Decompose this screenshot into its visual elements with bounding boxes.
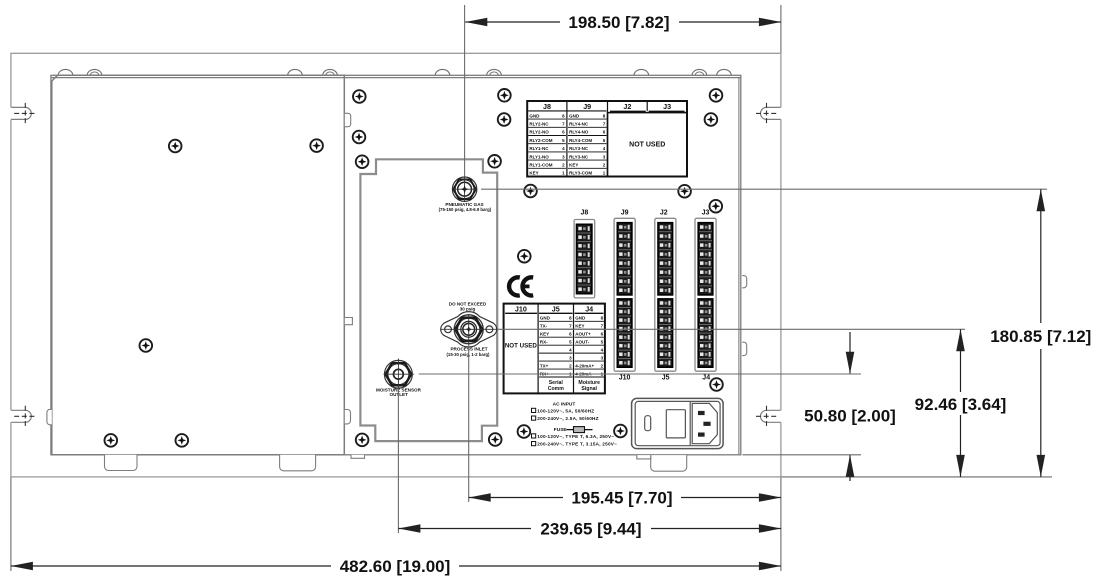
svg-text:FUSE: FUSE: [554, 427, 568, 433]
svg-text:50.80 [2.00]: 50.80 [2.00]: [804, 406, 896, 425]
screw 7: [353, 131, 366, 144]
svg-text:J9: J9: [583, 102, 591, 111]
svg-text:AC INPUT: AC INPUT: [553, 401, 576, 407]
mounting slot L416: [11, 410, 31, 422]
svg-text:482.60 [19.00]: 482.60 [19.00]: [340, 557, 451, 576]
svg-text:RLY2-COM: RLY2-COM: [529, 138, 552, 143]
extension line moisture horizontal: [419, 373, 861, 375]
svg-text:AOUT-: AOUT-: [575, 340, 590, 345]
svg-text:RLY1-COM: RLY1-COM: [529, 162, 552, 167]
svg-text:TX-: TX-: [540, 324, 548, 329]
svg-text:200-240V~, 2.5A, 50/60HZ: 200-240V~, 2.5A, 50/60HZ: [537, 416, 598, 421]
svg-text:Comm: Comm: [548, 386, 565, 392]
svg-text:RX-: RX-: [540, 340, 548, 345]
screw 15: [705, 113, 718, 126]
svg-text:J8: J8: [581, 209, 589, 216]
foot tab 3: [651, 455, 687, 471]
svg-text:J2: J2: [660, 209, 668, 216]
process inlet fitting: [441, 312, 497, 347]
screw 8: [356, 155, 369, 168]
svg-text:J4: J4: [702, 375, 710, 382]
chassis right seam line: [738, 78, 740, 455]
svg-text:198.50 [7.82]: 198.50 [7.82]: [568, 13, 669, 32]
foot tab 1: [105, 455, 138, 471]
svg-text:GND: GND: [575, 316, 586, 321]
svg-text:J5: J5: [552, 304, 560, 313]
screw 21: [614, 425, 627, 438]
chassis rear outline: [51, 75, 741, 455]
screw 9: [356, 434, 369, 447]
extension line pneumatic vertical: [464, 5, 466, 177]
svg-text:195.45 [7.70]: 195.45 [7.70]: [571, 488, 672, 507]
small bottom bump right: [637, 455, 651, 459]
svg-text:J2: J2: [623, 102, 631, 111]
svg-text:RLY3-NC: RLY3-NC: [569, 154, 589, 159]
svg-text:J10: J10: [515, 304, 527, 313]
dimension 180.85 right: [1040, 189, 1042, 323]
terminal strip J8: [574, 220, 595, 298]
dimension 195.45 bottom: [469, 497, 563, 499]
svg-text:4-20mA+: 4-20mA+: [575, 363, 594, 368]
IEC C14 inlet: [689, 401, 691, 445]
screw 12: [498, 89, 511, 102]
svg-text:RLY1-NC: RLY1-NC: [529, 146, 549, 151]
extension line panel left bottom: [10, 478, 12, 572]
door tab A: [345, 113, 351, 126]
extension line panel right top: [780, 5, 782, 53]
screw 19: [518, 250, 531, 263]
CE mark: [509, 277, 533, 295]
fuse drawer: [666, 410, 685, 438]
svg-text:KEY: KEY: [569, 162, 578, 167]
power switch slot: [645, 416, 651, 431]
lower table rows: [539, 320, 572, 322]
svg-text:RLY2-NC: RLY2-NC: [529, 121, 549, 126]
door tab B: [345, 318, 353, 325]
chassis top seam line: [51, 77, 741, 79]
top edge dome screws: [58, 69, 73, 75]
screw 18: [710, 200, 723, 213]
left access door: [52, 75, 345, 455]
svg-text:TX+: TX+: [540, 363, 549, 368]
svg-text:RLY3-COM: RLY3-COM: [569, 171, 592, 176]
screw 1: [169, 140, 182, 153]
upper table rows: [528, 118, 566, 120]
mounting slot L113: [11, 107, 31, 119]
screw 20: [518, 425, 531, 438]
svg-text:J9: J9: [621, 209, 629, 216]
terminal strip column J3/J4: [695, 218, 716, 371]
extension line pneumatic horizontal: [481, 188, 1047, 190]
svg-text:30 psig: 30 psig: [460, 307, 476, 312]
screw 17: [678, 185, 691, 198]
rack panel outline: [11, 53, 781, 477]
screw 10: [488, 155, 501, 168]
foot tab 2: [280, 455, 316, 471]
door tab C: [345, 410, 351, 424]
svg-text:RLY3-NC: RLY3-NC: [569, 146, 589, 151]
extension line process vertical: [468, 344, 470, 502]
lower connector table: [504, 304, 605, 394]
svg-text:KEY: KEY: [575, 324, 584, 329]
C14 pins: [698, 411, 705, 415]
svg-text:Signal: Signal: [581, 386, 597, 392]
chassis right edge tabs: [742, 276, 747, 288]
not used box upper: [608, 113, 688, 177]
svg-text:AOUT+: AOUT+: [575, 332, 591, 337]
svg-text:NOT USED: NOT USED: [505, 343, 538, 350]
moisture sensor outlet fitting: [384, 359, 414, 391]
screw 2: [310, 139, 323, 152]
svg-text:J3: J3: [663, 102, 671, 111]
screw 4: [105, 434, 118, 447]
svg-text:180.85 [7.12]: 180.85 [7.12]: [990, 327, 1091, 346]
screw 3: [140, 339, 153, 352]
svg-text:100-120V~, 5A, 50/60HZ: 100-120V~, 5A, 50/60HZ: [537, 408, 594, 413]
svg-text:GND: GND: [529, 113, 540, 118]
terminal strip column J2/J5: [655, 218, 676, 371]
dimension 50.80 right: [849, 332, 851, 373]
screw 6: [353, 90, 366, 103]
mounting slot R113: [761, 107, 781, 119]
svg-text:200-240V~, TYPE T, 3.15A, 2: 200-240V~, TYPE T, 3.15A, 250V~: [537, 442, 617, 447]
mounting slot R416: [761, 410, 781, 422]
extension line moisture vertical: [397, 389, 399, 534]
dimension 198.50 top: [465, 21, 560, 23]
terminal strip column J9/J10: [614, 218, 635, 371]
svg-text:239.65 [9.44]: 239.65 [9.44]: [540, 519, 641, 538]
svg-text:J10: J10: [619, 375, 631, 382]
svg-text:GND: GND: [540, 316, 551, 321]
dimension 239.65 bottom: [398, 528, 531, 530]
svg-text:GND: GND: [569, 113, 580, 118]
screw 16: [524, 185, 537, 198]
svg-text:92.46 [3.64]: 92.46 [3.64]: [915, 395, 1007, 414]
svg-text:J3: J3: [702, 209, 710, 216]
pneumatic gas fitting: [452, 177, 477, 202]
small bottom bump left: [351, 455, 365, 459]
svg-text:KEY: KEY: [529, 171, 538, 176]
svg-text:RLY2-NO: RLY2-NO: [529, 130, 549, 135]
screw 11: [489, 433, 502, 446]
extension line process horizontal: [498, 328, 966, 330]
screw 13: [498, 113, 511, 126]
screw 22: [710, 378, 723, 391]
power entry module: [632, 398, 724, 448]
screw 14: [710, 89, 723, 102]
door tab left edge: [47, 409, 52, 424]
extension line panel bottom right: [782, 476, 1053, 478]
svg-text:(75-150 psig, 4.8-6.9 barg): (75-150 psig, 4.8-6.9 barg): [439, 207, 492, 212]
removable cover plate: [360, 159, 497, 441]
svg-text:RLY4-NO: RLY4-NO: [569, 130, 589, 135]
svg-text:RLY1-NO: RLY1-NO: [529, 154, 549, 159]
svg-text:100-120V~, TYPE T, 6.3A, 25: 100-120V~, TYPE T, 6.3A, 250V~: [537, 434, 614, 439]
svg-text:NOT USED: NOT USED: [629, 142, 665, 149]
extension line panel right bottom: [780, 478, 782, 572]
svg-text:KEY: KEY: [540, 332, 549, 337]
upper connector table: [527, 101, 687, 177]
dimension 482.60 bottom: [11, 565, 331, 567]
dimension 92.46 right: [960, 329, 962, 392]
svg-text:J5: J5: [662, 375, 670, 382]
svg-text:RLY4-NC: RLY4-NC: [569, 121, 589, 126]
svg-text:RLY4-COM: RLY4-COM: [569, 138, 592, 143]
screw 5: [176, 434, 189, 447]
extension line chassis bottom right: [743, 454, 862, 456]
svg-text:J8: J8: [543, 102, 551, 111]
svg-text:J4: J4: [585, 304, 593, 313]
